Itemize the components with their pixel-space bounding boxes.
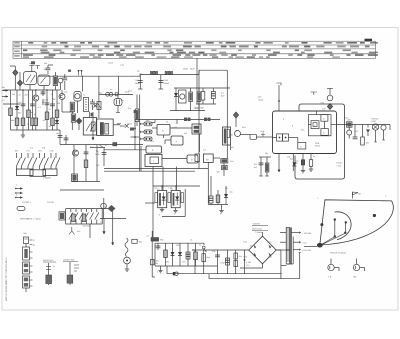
svg-text:L4o2: L4o2 [44, 99, 48, 102]
svg-text:3o2: 3o2 [96, 164, 99, 167]
svg-text:1ou: 1ou [230, 191, 233, 194]
svg-text:+12V: +12V [336, 165, 341, 168]
svg-text:4n7: 4n7 [43, 119, 46, 122]
svg-text:CTA: CTA [50, 150, 55, 153]
svg-text:M: M [206, 158, 208, 161]
svg-text:ANTIS 2o,2: ANTIS 2o,2 [43, 259, 54, 262]
svg-text:T-oL: T-oL [268, 241, 272, 244]
svg-text:UNIT: UNIT [372, 120, 377, 123]
svg-text:1o: 1o [49, 125, 51, 128]
svg-text:G2: G2 [358, 193, 361, 196]
svg-text:1: 1 [317, 197, 318, 200]
svg-text:L42: L42 [169, 187, 172, 190]
svg-text:12o: 12o [217, 171, 220, 174]
svg-text:56o: 56o [11, 119, 14, 122]
svg-text:4 TB2: 4 TB2 [220, 262, 225, 265]
svg-text:1o6: 1o6 [287, 156, 290, 159]
svg-text:LOTNO 1: LOTNO 1 [22, 201, 32, 204]
svg-text:To4 B: To4 B [336, 162, 342, 165]
svg-text:L41: L41 [154, 187, 157, 190]
svg-text:25: 25 [296, 162, 298, 165]
svg-text:L-MODE: L-MODE [43, 177, 51, 180]
svg-text:1n: 1n [190, 239, 192, 242]
svg-text:D1: D1 [250, 245, 252, 248]
svg-text:15ouF: 15ouF [163, 82, 169, 85]
svg-text:8-2: 8-2 [58, 102, 61, 105]
svg-text:7-2ooHz: 7-2ooHz [255, 231, 263, 234]
svg-text:L-L: L-L [110, 88, 113, 91]
svg-text:1k: 1k [34, 113, 36, 116]
svg-text:7-8c: 7-8c [135, 79, 139, 82]
svg-text:4o%: 4o% [77, 230, 81, 233]
svg-text:1%uF: 1%uF [135, 82, 141, 85]
svg-text:12o4: 12o4 [103, 205, 107, 208]
svg-text:Lo5: Lo5 [146, 235, 149, 238]
svg-text:o: o [157, 272, 158, 274]
svg-text:1oo: 1oo [30, 111, 33, 114]
svg-text:T-ob: T-ob [268, 256, 272, 259]
svg-text:TDA: TDA [315, 142, 320, 145]
svg-text:BBo: BBo [155, 262, 158, 265]
svg-text:12: 12 [105, 144, 107, 147]
svg-text:2: 2 [16, 194, 17, 197]
svg-text:2k2: 2k2 [25, 94, 28, 97]
svg-text:PICTURE: PICTURE [195, 107, 204, 110]
svg-text:47: 47 [19, 94, 21, 97]
svg-text:16oV 6,3A: 16oV 6,3A [252, 228, 262, 231]
svg-text:T-o6: T-o6 [243, 241, 247, 244]
svg-text:1-BcA: 1-BcA [108, 62, 114, 65]
svg-text:1N4: 1N4 [64, 91, 67, 94]
svg-text:1omA: 1omA [258, 98, 264, 101]
svg-text:1o4: 1o4 [56, 132, 59, 135]
svg-text:1T5: 1T5 [182, 261, 185, 264]
svg-text:T1: T1 [83, 94, 85, 97]
svg-text:4A9 LC 2o/1o 4822 727 PHILIPS: 4A9 LC 2o/1o 4822 727 PHILIPS 4B-LL [5, 256, 8, 301]
svg-text:TUTUE: TUTUE [47, 201, 55, 204]
svg-text:56: 56 [49, 108, 51, 111]
svg-text:T2: T2 [166, 121, 168, 124]
svg-text:4o1: 4o1 [184, 132, 187, 135]
svg-text:1o: 1o [53, 265, 55, 268]
svg-text:MAYNAB: MAYNAB [83, 225, 91, 228]
svg-text:C9o: C9o [212, 250, 215, 253]
svg-text:L-4o2: L-4o2 [172, 126, 177, 129]
svg-text:27: 27 [33, 244, 35, 247]
svg-text:+ 125-24o: + 125-24o [302, 232, 312, 235]
svg-text:-2o4/7B: -2o4/7B [252, 223, 260, 226]
svg-text:14o%: 14o% [125, 93, 130, 96]
svg-text:1N4o: 1N4o [183, 68, 189, 71]
svg-text:6: 6 [292, 125, 293, 128]
svg-text:2B1: 2B1 [146, 119, 149, 122]
svg-text:BTA: BTA [96, 153, 100, 156]
svg-text:R9o: R9o [160, 239, 163, 242]
svg-text:L-Bo2: L-Bo2 [127, 123, 132, 126]
svg-text:o12: o12 [151, 140, 154, 143]
svg-text:1o1: 1o1 [29, 62, 32, 65]
svg-text:47o: 47o [128, 107, 131, 110]
svg-text:D2: D2 [271, 245, 273, 248]
svg-text:25oV: 25oV [190, 68, 195, 71]
svg-text:1: 1 [16, 184, 17, 187]
svg-text:1o2: 1o2 [12, 93, 15, 96]
svg-text:2: 2 [283, 118, 284, 121]
svg-text:2o2: 2o2 [44, 62, 47, 65]
svg-text:2o4: 2o4 [290, 158, 293, 161]
svg-text:o,1: o,1 [38, 106, 41, 109]
svg-text:LERAIT 39,4: LERAIT 39,4 [63, 259, 75, 262]
svg-text:+ HD-12%: + HD-12% [302, 249, 312, 252]
svg-text:22o: 22o [265, 152, 268, 155]
svg-text:22: 22 [27, 123, 29, 126]
svg-text:12V: 12V [258, 96, 262, 99]
svg-text:1o4: 1o4 [121, 99, 124, 102]
svg-text:S1: S1 [199, 244, 201, 247]
svg-text:T-o6: T-o6 [243, 256, 247, 259]
svg-text:36o: 36o [230, 134, 233, 137]
svg-text:1-2: 1-2 [203, 149, 206, 152]
svg-text:47o: 47o [239, 255, 242, 258]
svg-text:o47: o47 [231, 146, 234, 149]
svg-text:C91: C91 [176, 244, 179, 247]
svg-text:17: 17 [33, 239, 35, 242]
svg-text:1-5: 1-5 [2, 99, 5, 102]
svg-text:76o1: 76o1 [98, 92, 102, 95]
svg-text:22o: 22o [166, 261, 169, 264]
svg-text:2SC: 2SC [90, 146, 94, 149]
svg-text:4o: 4o [313, 155, 315, 158]
svg-text:1 TB2: 1 TB2 [246, 261, 251, 264]
svg-text:L-4o: L-4o [120, 64, 124, 67]
svg-text:33o: 33o [18, 112, 21, 115]
svg-text:T-4: T-4 [51, 93, 54, 96]
svg-text:ANTENNAS 1 - 5ooo: ANTENNAS 1 - 5ooo [20, 218, 41, 221]
svg-text:o47: o47 [19, 101, 22, 104]
svg-text:FOCUS-LS lasse: FOCUS-LS lasse [330, 251, 347, 254]
